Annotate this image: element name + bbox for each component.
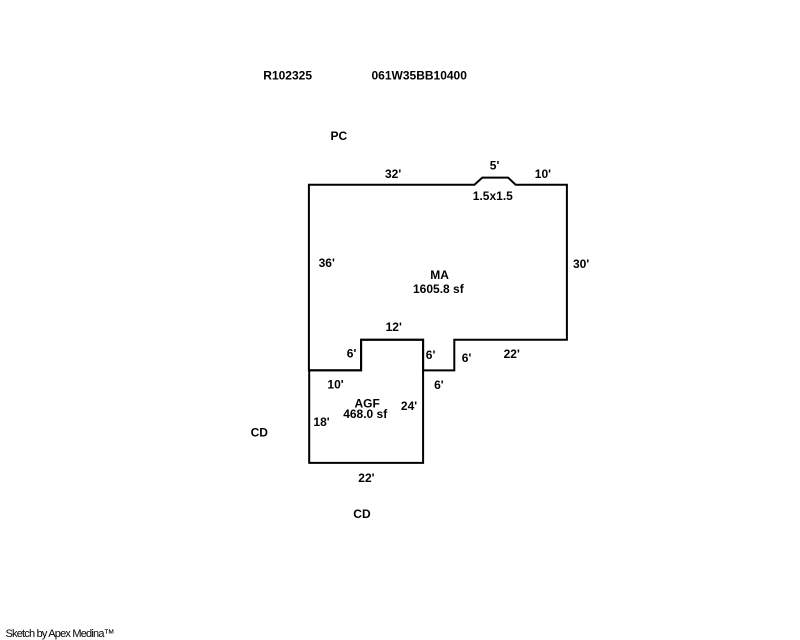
- svg-text:6': 6': [434, 378, 444, 392]
- svg-text:10': 10': [535, 167, 551, 181]
- svg-text:CD: CD: [251, 426, 269, 440]
- svg-text:CD: CD: [353, 507, 371, 521]
- svg-text:10': 10': [327, 378, 343, 392]
- svg-text:5': 5': [490, 159, 500, 173]
- svg-text:061W35BB10400: 061W35BB10400: [372, 69, 468, 83]
- svg-text:30': 30': [573, 257, 589, 271]
- svg-text:22': 22': [504, 347, 520, 361]
- svg-text:6': 6': [426, 348, 436, 362]
- svg-text:R102325: R102325: [263, 69, 312, 83]
- svg-text:18': 18': [313, 415, 329, 429]
- svg-text:32': 32': [385, 167, 401, 181]
- MA outline polygon: [309, 178, 567, 371]
- svg-text:22': 22': [358, 471, 374, 485]
- svg-text:MA: MA: [430, 268, 449, 282]
- svg-text:1605.8 sf: 1605.8 sf: [413, 282, 465, 296]
- AGF outline polygon: [309, 340, 423, 463]
- svg-text:1.5x1.5: 1.5x1.5: [473, 189, 513, 203]
- svg-text:PC: PC: [331, 129, 348, 143]
- svg-text:6': 6': [462, 351, 472, 365]
- svg-text:12': 12': [386, 320, 402, 334]
- svg-text:468.0 sf: 468.0 sf: [343, 407, 388, 421]
- svg-text:6': 6': [347, 347, 357, 361]
- svg-text:24': 24': [401, 399, 417, 413]
- svg-text:36': 36': [319, 256, 335, 270]
- svg-text:Sketch by Apex Medina™: Sketch by Apex Medina™: [6, 628, 114, 640]
